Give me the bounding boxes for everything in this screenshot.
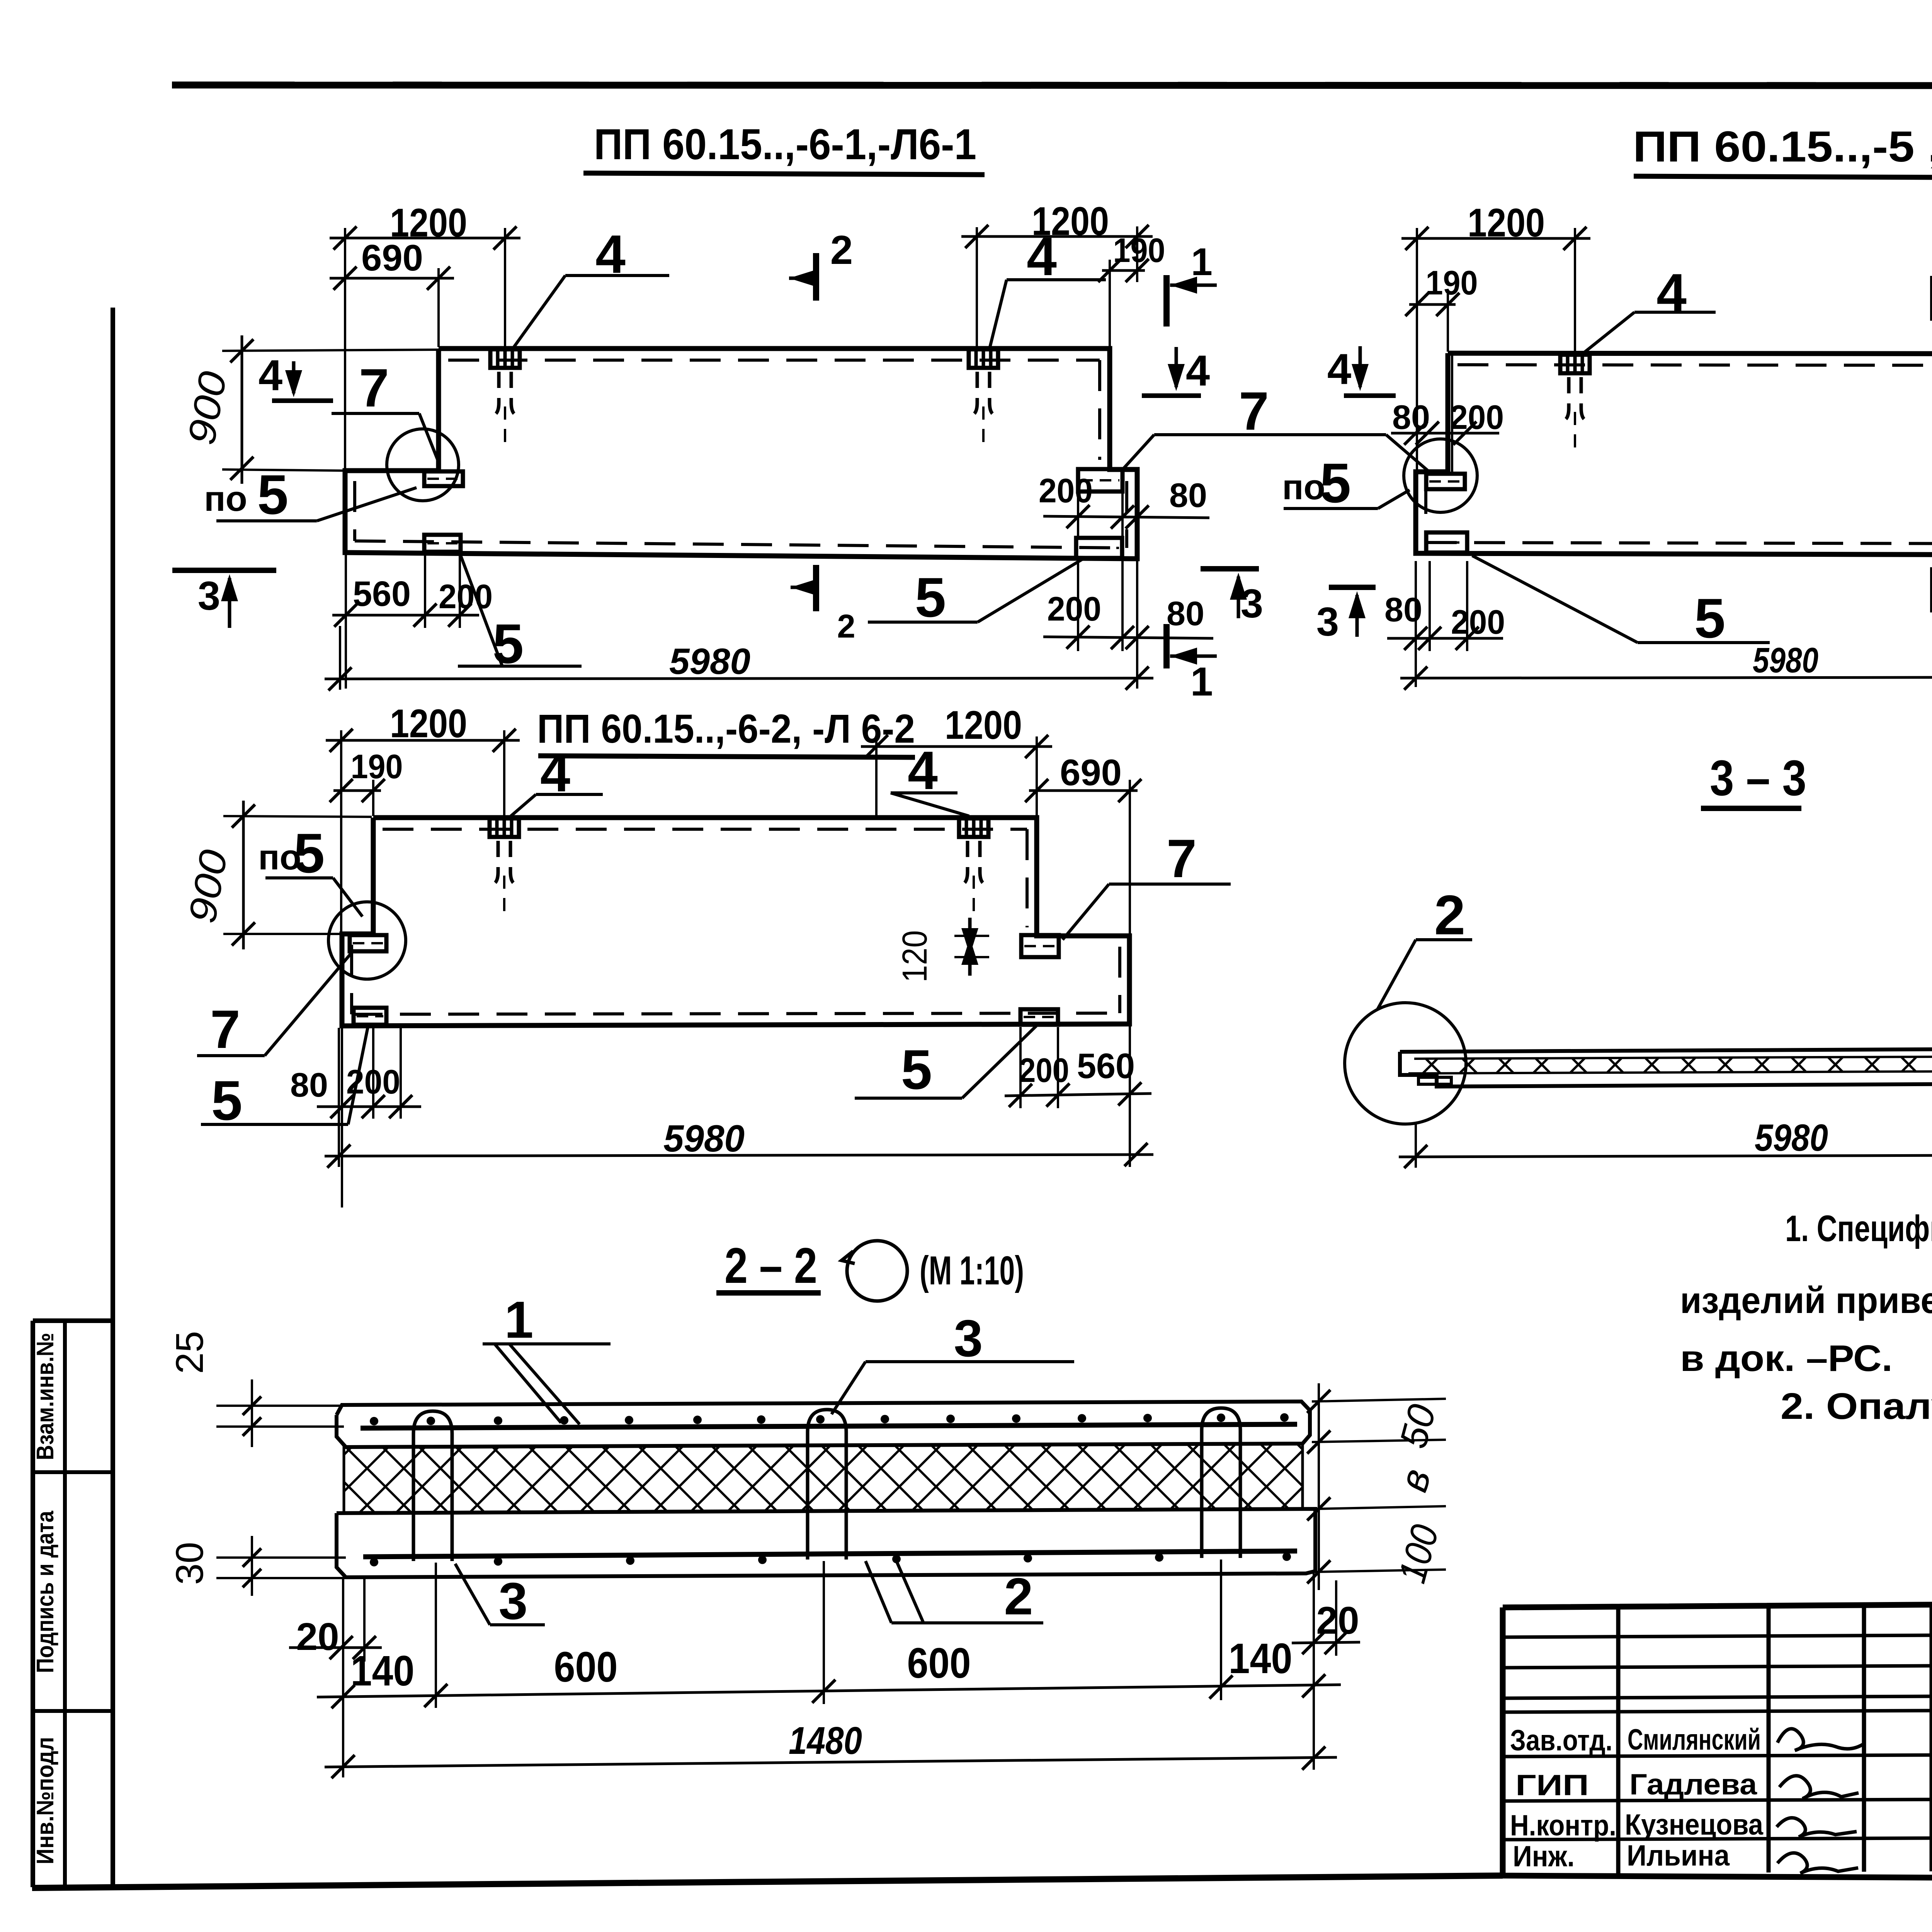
section marker 2 top panel -5 bbox=[1930, 276, 1932, 321]
svg-text:в док. –РС.: в док. –РС. bbox=[1680, 1338, 1893, 1379]
panel -6-1 inner dashed left bbox=[353, 481, 356, 541]
panel -6-2 embed plate 5 bottom right bbox=[1020, 1009, 1058, 1025]
svg-text:200: 200 bbox=[1450, 398, 1504, 436]
panel -6-1 dim 1200 top left bbox=[330, 237, 520, 240]
panel -6-1 inner dashed bottom bbox=[355, 541, 1127, 548]
section marker 2 bottom panel -5 bbox=[1930, 567, 1932, 612]
svg-text:1200: 1200 bbox=[390, 701, 467, 746]
panel -6-1 dim 560 and 200 bottom left bbox=[332, 614, 479, 617]
svg-text:190: 190 bbox=[1113, 231, 1165, 269]
svg-text:80: 80 bbox=[1167, 594, 1204, 633]
svg-text:1: 1 bbox=[1190, 659, 1213, 704]
section 3-3 panel lower inner line bbox=[1408, 1070, 1932, 1073]
panel -6-1 outline bbox=[345, 349, 1137, 559]
svg-text:2: 2 bbox=[1434, 884, 1466, 946]
section marker 3 left panel -5 bbox=[1329, 585, 1376, 590]
panel -6-2 dim 5980 overall bbox=[325, 1155, 1153, 1156]
svg-text:5: 5 bbox=[1320, 452, 1351, 514]
panel -6-2 inner dashed top bbox=[383, 828, 1027, 831]
panel -6-1 dim 1200 extension lines bbox=[344, 228, 346, 471]
sheet frame left border bbox=[111, 308, 115, 1887]
svg-text:(М 1:10): (М 1:10) bbox=[920, 1248, 1024, 1293]
section 3-3 dim 5980 bbox=[1399, 1155, 1932, 1157]
panel -6-1 dim 1200 top right bbox=[961, 235, 1153, 238]
title block thin rows top left bbox=[1503, 1635, 1932, 1637]
svg-text:690: 690 bbox=[361, 237, 423, 279]
svg-text:3 – 3: 3 – 3 bbox=[1710, 750, 1806, 806]
title block vertical dividers left stamp bbox=[1616, 1607, 1621, 1873]
svg-text:5980: 5980 bbox=[669, 641, 750, 682]
svg-text:5980: 5980 bbox=[1753, 641, 1818, 680]
panel -6-1 embed plate 7 on ledge bbox=[424, 471, 463, 486]
svg-text:1200: 1200 bbox=[945, 703, 1022, 748]
section 2-2 title underline bbox=[716, 1290, 821, 1296]
svg-text:600: 600 bbox=[554, 1643, 618, 1691]
signature scribble 3 bbox=[1777, 1818, 1857, 1837]
svg-text:3: 3 bbox=[198, 573, 220, 619]
svg-text:690: 690 bbox=[1060, 752, 1122, 793]
svg-text:Инж.: Инж. bbox=[1513, 1840, 1575, 1873]
svg-text:ПП 60.15..,-6-2, -Л 6-2: ПП 60.15..,-6-2, -Л 6-2 bbox=[537, 706, 915, 752]
panel -6-1 inner dashed top bbox=[448, 359, 1100, 362]
panel -5 dim 5980 overall bbox=[1400, 677, 1932, 678]
svg-text:3: 3 bbox=[1316, 599, 1339, 645]
svg-text:140: 140 bbox=[1229, 1635, 1293, 1682]
section marker 1 bottom right panel1 bbox=[1163, 624, 1170, 668]
svg-text:3: 3 bbox=[498, 1572, 527, 1630]
svg-text:3: 3 bbox=[1241, 581, 1263, 626]
svg-text:Зав.отд.: Зав.отд. bbox=[1510, 1724, 1612, 1757]
section 2-2 dims 50 v 100 right bbox=[1318, 1383, 1320, 1590]
svg-text:2. Опалубочные узлы см. д: 2. Опалубочные узлы см. док. 2-7. bbox=[1781, 1386, 1932, 1427]
title block outer box bbox=[1503, 1600, 1932, 1879]
svg-text:4: 4 bbox=[1186, 347, 1210, 395]
svg-text:по: по bbox=[204, 479, 247, 519]
svg-text:2 – 2: 2 – 2 bbox=[724, 1237, 817, 1294]
svg-text:25: 25 bbox=[168, 1331, 211, 1374]
svg-text:200: 200 bbox=[439, 577, 493, 616]
panel -6-1 embed plate 4 first bbox=[490, 349, 520, 368]
svg-text:7: 7 bbox=[210, 999, 240, 1060]
panel -6-2 dim 1200 top left bbox=[326, 739, 520, 742]
panel -5 inner dashed top bbox=[1458, 365, 1932, 366]
svg-text:200: 200 bbox=[1039, 471, 1093, 510]
panel -6-2 detail circle left embed bbox=[328, 902, 406, 979]
svg-text:5: 5 bbox=[901, 1038, 932, 1101]
svg-text:5: 5 bbox=[294, 822, 325, 884]
section 3-3 title underline bbox=[1701, 806, 1801, 811]
panel -6-2 dim 1200 top right bbox=[861, 745, 1052, 748]
svg-text:5: 5 bbox=[211, 1069, 243, 1132]
panel -6-2 embed plate 5 bottom left bbox=[354, 1008, 386, 1025]
svg-text:600: 600 bbox=[907, 1639, 971, 1687]
svg-text:4: 4 bbox=[1027, 226, 1057, 287]
panel -6-2 embed plate 4 first bbox=[490, 818, 519, 837]
svg-text:Подпись и дата: Подпись и дата bbox=[32, 1511, 59, 1673]
panel -5 embed plate 4 first bbox=[1560, 355, 1590, 373]
panel -6-2 embed plate 4 second bbox=[959, 818, 988, 837]
svg-text:4: 4 bbox=[259, 351, 282, 400]
section 2-2 top rebar dots bbox=[370, 1417, 378, 1425]
svg-text:190: 190 bbox=[351, 747, 403, 786]
svg-text:ГИП: ГИП bbox=[1515, 1769, 1589, 1802]
panel -6-2 inner dashed bottom bbox=[352, 1013, 1120, 1014]
section marker 3 bottom left bbox=[172, 568, 276, 573]
panel -6-2 outline bbox=[342, 818, 1129, 1026]
svg-text:1200: 1200 bbox=[1468, 201, 1545, 245]
panel -6-1 inner dashed right bbox=[1098, 360, 1101, 460]
svg-text:80: 80 bbox=[1169, 476, 1207, 514]
section 2-2 top concrete layer bbox=[337, 1401, 1310, 1447]
svg-text:1: 1 bbox=[1191, 240, 1213, 284]
sheet frame bottom border bbox=[32, 1876, 1503, 1888]
svg-text:1480: 1480 bbox=[789, 1719, 862, 1762]
panel -6-1 dim 690 bbox=[330, 277, 454, 280]
svg-text:по: по bbox=[1282, 468, 1325, 507]
svg-text:5980: 5980 bbox=[1755, 1116, 1828, 1159]
svg-text:200: 200 bbox=[1451, 603, 1505, 641]
svg-text:560: 560 bbox=[353, 574, 411, 614]
svg-text:7: 7 bbox=[359, 357, 389, 418]
svg-text:Гадлева: Гадлева bbox=[1629, 1768, 1757, 1801]
svg-text:560: 560 bbox=[1077, 1046, 1135, 1086]
svg-text:120: 120 bbox=[896, 930, 934, 983]
section 3-3 panel top inner line bbox=[1414, 1056, 1932, 1059]
section 2-2 dim 1480 overall bbox=[325, 1757, 1337, 1767]
svg-text:2: 2 bbox=[1004, 1567, 1033, 1626]
svg-text:Инв.№подл: Инв.№подл bbox=[32, 1737, 59, 1864]
panel -5 detail circle at left embed bbox=[1404, 439, 1477, 512]
svg-text:3: 3 bbox=[954, 1309, 983, 1367]
svg-text:200: 200 bbox=[1019, 1051, 1069, 1089]
panel -6-1 embed plate 5 bottom left bbox=[424, 535, 461, 552]
section marker 2 top bbox=[813, 253, 819, 301]
title block name rows bbox=[1503, 1711, 1932, 1712]
svg-text:2: 2 bbox=[830, 228, 853, 273]
section 2-2 top rebar bbox=[361, 1424, 1297, 1428]
panel -5 embed plate 7 left edge bbox=[1426, 474, 1465, 489]
panel -6-1 embed plate 4 second bbox=[969, 349, 998, 368]
svg-text:ПП 60.15..,-5 , -Л 5: ПП 60.15..,-5 , -Л 5 bbox=[1633, 122, 1932, 171]
svg-text:5: 5 bbox=[257, 463, 289, 526]
svg-text:5: 5 bbox=[1694, 587, 1726, 650]
panel -5 embed plate 5 bottom left bbox=[1426, 532, 1467, 553]
svg-text:Н.контр.: Н.контр. bbox=[1510, 1809, 1616, 1842]
panel -6-2 inner dashed right bbox=[1026, 829, 1029, 927]
section 3-3 detail circle left end bbox=[1345, 1003, 1466, 1124]
panel -5 inner dashed bottom bbox=[1426, 543, 1932, 544]
section 2-2 view direction circle bbox=[847, 1241, 907, 1301]
panel -5 title underline bbox=[1634, 176, 1932, 178]
svg-text:Смилянский: Смилянский bbox=[1628, 1723, 1761, 1756]
section 2-2 bottom dim extension lines bbox=[342, 1579, 344, 1777]
panel -5 dim 1200 top left bbox=[1401, 237, 1590, 240]
section 2-2 bottom concrete layer bbox=[337, 1509, 1315, 1577]
panel -6-1 embed plate 7 right edge bbox=[1078, 469, 1122, 492]
section 2-2 stirrup hairpin 2 bbox=[808, 1410, 846, 1560]
svg-text:Ильина: Ильина bbox=[1627, 1839, 1730, 1872]
panel -5 outline bbox=[1416, 353, 1932, 555]
svg-text:80: 80 bbox=[1392, 398, 1430, 436]
svg-text:Кузнецова: Кузнецова bbox=[1625, 1808, 1764, 1841]
section 2-2 bottom rebar bbox=[363, 1551, 1297, 1557]
panel -6-1 detail circle at embed 7 bbox=[387, 429, 459, 501]
section 2-2 bottom dim row 140 600 600 140 bbox=[317, 1685, 1341, 1697]
panel -6-1 dim 900 vertical bbox=[241, 335, 243, 484]
panel -5 inner dashed left bbox=[1424, 483, 1427, 543]
svg-text:4: 4 bbox=[1656, 262, 1687, 323]
svg-text:140: 140 bbox=[351, 1647, 415, 1695]
svg-text:4: 4 bbox=[1327, 345, 1351, 393]
panel -6-2 embed plate 7 right bbox=[1021, 935, 1059, 957]
section marker 1 top right bbox=[1163, 275, 1170, 327]
section 3-3 panel insulation band hatched bbox=[1414, 1056, 1932, 1073]
svg-text:30: 30 bbox=[168, 1542, 211, 1585]
svg-text:5: 5 bbox=[915, 566, 946, 629]
panel -6-1 dim 5980 overall bbox=[325, 678, 1153, 679]
section 2-2 stirrup hairpin 3 bbox=[1202, 1408, 1240, 1558]
svg-text:190: 190 bbox=[1426, 264, 1478, 302]
left stamp column box bbox=[31, 1321, 35, 1887]
signature scribble 4 bbox=[1777, 1853, 1858, 1873]
section 3-3 bottom left embed strip bbox=[1418, 1077, 1451, 1084]
section 2-2 bottom rebar dots bbox=[370, 1558, 378, 1566]
panel -6-1 embed plate 5 bottom right bbox=[1076, 538, 1122, 558]
svg-text:200: 200 bbox=[1047, 590, 1101, 628]
svg-text:20: 20 bbox=[296, 1615, 339, 1658]
panel -6-2 embed plate 7 left bbox=[350, 935, 386, 951]
svg-text:80: 80 bbox=[290, 1066, 328, 1104]
svg-text:Взам.инв.№: Взам.инв.№ bbox=[32, 1333, 59, 1460]
svg-text:7: 7 bbox=[1167, 828, 1197, 889]
panel -6-2 inner dashed left bbox=[350, 945, 353, 1014]
panel -6-2 title underline bbox=[538, 756, 915, 757]
sheet frame top border bbox=[172, 85, 1932, 86]
signature scribble 1 bbox=[1777, 1729, 1864, 1750]
section 2-2 insulation crosshatch band bbox=[344, 1444, 1303, 1513]
svg-text:7: 7 bbox=[1239, 381, 1269, 441]
section marker 2 bottom bbox=[813, 565, 819, 611]
section 3-3 panel bar outline bbox=[1400, 1048, 1932, 1087]
svg-text:5980: 5980 bbox=[663, 1117, 745, 1160]
svg-text:2: 2 bbox=[837, 608, 855, 645]
svg-text:1: 1 bbox=[504, 1291, 533, 1349]
svg-text:1. Спецификация: 1. Спецификация bbox=[1785, 1208, 1932, 1249]
svg-text:ПП 60.15..,-6-1,-Л6-1: ПП 60.15..,-6-1,-Л6-1 bbox=[594, 120, 976, 168]
signature scribble 2 bbox=[1779, 1776, 1859, 1799]
panel -6-1 title underline bbox=[583, 173, 985, 175]
svg-text:изделий приведена в док. 2: изделий приведена в док. 2-8 , выборка с… bbox=[1680, 1280, 1932, 1321]
section marker 3 between panels left bbox=[1201, 566, 1259, 571]
panel -6-2 dim 900 left bbox=[242, 801, 245, 949]
section 2-2 stirrup hairpin 1 bbox=[413, 1411, 452, 1561]
